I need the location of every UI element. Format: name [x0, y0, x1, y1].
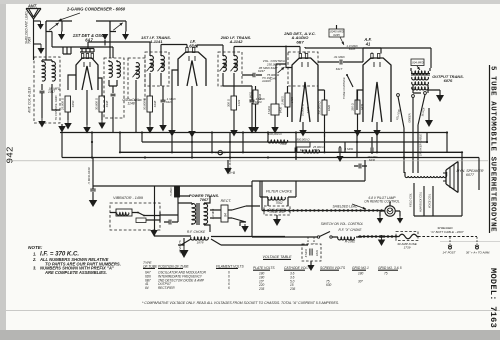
speaker cone — [443, 162, 458, 193]
svg-text:.01 MFD: .01 MFD — [333, 55, 345, 59]
speaker lead green — [408, 98, 414, 158]
label power trans 7067 — [189, 193, 219, 202]
bus verticals — [62, 124, 479, 190]
svg-text:R.F. CHOKE: R.F. CHOKE — [187, 230, 206, 234]
battery terminal wires — [450, 237, 477, 245]
label 2nd IF trans A-1142 — [220, 35, 252, 44]
scan edge bottom — [0, 330, 500, 340]
capacitor 1047b — [164, 220, 178, 225]
ground 6434 — [252, 127, 259, 133]
svg-text:VIBRATOR - 1499: VIBRATOR - 1499 — [113, 196, 143, 200]
pilot lamp symbol — [385, 202, 395, 216]
wire IF1 sec bridge to 6D6 — [161, 45, 187, 53]
1st IF transformer box — [145, 52, 169, 86]
wire 6D6 cathode down — [191, 86, 193, 131]
svg-text:25,000 Ω: 25,000 Ω — [61, 97, 65, 111]
fuse element — [397, 234, 418, 239]
6A7 grid return wiring — [52, 32, 113, 59]
label pilot lamp — [364, 196, 400, 204]
label RF X choke — [339, 228, 363, 244]
label 2nd det avc audio 6B7 — [283, 31, 316, 44]
label speaker cable — [419, 134, 423, 156]
left page number 942 — [5, 146, 16, 163]
osc coil L3 — [109, 62, 112, 78]
rect tube wires — [210, 210, 232, 218]
wire cap 6423a — [162, 86, 164, 125]
voltage table header — [253, 266, 402, 270]
wire cap 6423b — [223, 86, 252, 127]
wire 6438 down — [149, 112, 151, 125]
ground under C1b — [122, 32, 129, 41]
6B7 shield box — [288, 52, 318, 86]
resistor 50000 ohm 6438 — [143, 96, 158, 112]
wire 41 left lead — [357, 90, 363, 110]
41 top pin wires — [363, 48, 381, 62]
label to 1st audio — [261, 76, 272, 83]
big ground bottom — [178, 238, 189, 258]
wire 6436 down — [274, 115, 276, 127]
osc coil L4 — [117, 62, 120, 78]
svg-text:VOICE COIL: VOICE COIL — [428, 193, 432, 208]
rf choke 1878 label — [187, 230, 206, 234]
ground under 6423a — [159, 125, 167, 132]
fuse box — [396, 232, 418, 241]
svg-text:235: 235 — [258, 287, 265, 291]
connector C3 — [215, 150, 226, 154]
svg-text:.5 MFD: .5 MFD — [169, 187, 173, 196]
wire ant coil leads — [42, 60, 52, 92]
svg-text:100,000 Ω: 100,000 Ω — [268, 132, 282, 136]
label .05 MFD 6437 — [258, 66, 270, 73]
ground cable cap — [308, 265, 315, 271]
tube 41 V4 — [363, 54, 391, 123]
osc coil shield box — [104, 58, 124, 118]
wire 6439 — [357, 90, 359, 130]
wire 6D6 left lead — [172, 70, 178, 130]
svg-text:OF TUBE: OF TUBE — [143, 264, 158, 268]
ground 41 cathode — [373, 130, 381, 137]
svg-text:6429: 6429 — [306, 106, 310, 113]
power section top wire — [93, 158, 365, 187]
ground 6A7 cathode — [83, 125, 91, 134]
6B7 top pin wires — [300, 52, 305, 54]
svg-text:HUM BUCK COIL: HUM BUCK COIL — [419, 191, 423, 212]
svg-text:.1 MFD: .1 MFD — [344, 147, 353, 151]
ant coil secondary L2 — [52, 62, 55, 81]
wire IF1 pri bottom — [149, 86, 151, 96]
svg-text:PLATE VOLTS: PLATE VOLTS — [253, 266, 275, 270]
wire C1b down to osc coil — [109, 21, 111, 58]
ground under C1a — [58, 32, 65, 41]
svg-text:6435: 6435 — [333, 33, 340, 37]
ground left end — [150, 230, 158, 237]
svg-text:+B: +B — [231, 171, 235, 175]
bus wire y142 — [142, 141, 427, 143]
label speaker plug — [228, 158, 232, 174]
cable cap dashed leads — [308, 237, 314, 244]
vibrator coil — [116, 209, 132, 216]
arrow from 6435 — [340, 37, 344, 45]
svg-text:6338: 6338 — [105, 100, 109, 107]
svg-text:6427: 6427 — [271, 66, 278, 70]
wire osc coil leads — [109, 60, 117, 86]
wire b plus — [228, 160, 235, 175]
vibrator wires — [110, 212, 160, 222]
shielded lead dots — [262, 209, 384, 211]
capacitor 5 MFD 6436 — [267, 104, 283, 115]
1st IF secondary — [161, 56, 164, 72]
wire antenna shield tap 2 — [34, 43, 42, 45]
bus wire y157 — [62, 157, 479, 159]
svg-text:75: 75 — [384, 272, 388, 276]
svg-text:3.: 3. — [33, 266, 36, 271]
rf choke wires — [154, 236, 308, 245]
svg-text:30,000 Ω: 30,000 Ω — [95, 97, 99, 110]
filter cond wires — [268, 197, 288, 219]
2nd IF primary arrow — [220, 63, 227, 71]
svg-text:6430: 6430 — [369, 158, 376, 162]
speaker lead yellow — [395, 97, 404, 158]
svg-text:FILAMENT VOLTS: FILAMENT VOLTS — [216, 264, 244, 268]
ground pilot right — [395, 211, 403, 224]
svg-text:RECTIFIER: RECTIFIER — [158, 286, 175, 290]
label vibrator 1499 — [113, 196, 143, 200]
svg-text:* COMPARATIVE VOLTAGE ONLY.: * COMPARATIVE VOLTAGE ONLY. READ ALL VOL… — [142, 301, 339, 305]
label AF 41 — [363, 37, 371, 46]
condenser 6440 label — [87, 167, 91, 184]
svg-text:CATHODE VOLTS: CATHODE VOLTS — [284, 266, 312, 270]
speaker plug terminals — [397, 92, 427, 98]
capacitor .25 MFD 6430 — [366, 137, 377, 162]
ground under 6338 — [98, 120, 106, 129]
svg-text:GRID NO.1: GRID NO.1 — [352, 266, 369, 270]
label .004 MFD — [411, 59, 424, 66]
wire trans secondary leads — [413, 85, 428, 93]
padding condenser box — [128, 58, 145, 100]
tube table header — [143, 261, 244, 268]
gang tuning capacitor C1a — [46, 21, 62, 32]
label +6 volts — [178, 240, 182, 254]
wire 41 cathode — [376, 122, 378, 130]
label 40 MFD — [211, 209, 215, 219]
ground filter — [273, 219, 281, 226]
svg-text:630: 630 — [326, 283, 332, 287]
gang tuning capacitor C1b (osc) — [110, 21, 126, 32]
wire C1a stator down to ant coil — [45, 21, 47, 60]
power transformer core — [197, 203, 199, 225]
dual filter cond 1138 — [264, 206, 290, 215]
filter choke label — [266, 190, 293, 194]
2nd IF secondary — [234, 56, 237, 72]
wire secondary to grid — [52, 92, 60, 110]
label shielded batt cable — [431, 226, 464, 234]
wire avc into 6B7 — [286, 46, 292, 68]
wire below cap 1047 — [41, 93, 43, 118]
resistor 30000 ohm 6338 — [95, 96, 110, 112]
resistor 500k tone 6444 — [296, 138, 310, 153]
osc padder capacitor — [111, 86, 116, 111]
vibrator contacts — [132, 212, 150, 217]
resistor half meg 6434 — [249, 86, 263, 127]
bus wire y132 — [60, 132, 447, 134]
label vol control — [263, 59, 286, 70]
svg-text:SWITCH ON VOL. CONTROL: SWITCH ON VOL. CONTROL — [321, 222, 364, 226]
svg-text:6B7: 6B7 — [296, 39, 304, 44]
ground under 6423b — [248, 127, 256, 134]
label 30 amp fuse — [397, 242, 418, 249]
label 75000 ohm 1146 — [267, 73, 280, 80]
wire 41 plate to output — [305, 47, 431, 68]
svg-text:TONE CONTROL: TONE CONTROL — [342, 76, 346, 99]
resistor 300 ohm 1143 — [227, 96, 242, 110]
shielded ant lead label 7069 — [25, 11, 32, 44]
ground pilot left — [377, 211, 385, 224]
svg-text:NOTE:: NOTE: — [28, 245, 43, 250]
wire gang link top — [62, 20, 110, 22]
choke 7068 — [303, 145, 326, 153]
tube 6A7 V1 — [76, 54, 98, 91]
right vertical title 5 TUBE AUTOMOBILE SUPERHETERODYNE — [489, 66, 497, 232]
label 1st IF trans A-1141 — [141, 35, 171, 44]
ground 6439 — [354, 130, 362, 137]
svg-text:1841: 1841 — [315, 249, 319, 256]
leader to gang condenser — [59, 13, 81, 21]
wire 6437 — [242, 74, 262, 76]
svg-text:10,000 Ω: 10,000 Ω — [301, 103, 305, 116]
bus wire y152 — [120, 151, 462, 153]
capacitor .1 MFD 7066 — [354, 164, 367, 169]
svg-text:236: 236 — [289, 287, 296, 291]
svg-text:A-1142: A-1142 — [229, 39, 244, 44]
label 1st det and osc 6A7 — [73, 33, 105, 42]
svg-text:8 MFD: 8 MFD — [304, 249, 308, 257]
wire 6A7 bridge to IF1 — [88, 42, 150, 52]
capacitor .1 MFD 6423a — [161, 97, 177, 104]
capacitor mid 1 — [295, 146, 297, 160]
rectifier 84 tube — [221, 205, 228, 222]
label 7064 — [280, 142, 287, 146]
wire 1143 leads — [233, 86, 235, 130]
2nd IF secondary arrow — [231, 63, 238, 71]
label switch on vol control — [321, 222, 364, 226]
resistor 7064 choke — [268, 132, 288, 143]
svg-text:"A" BATT CABLE - 2067: "A" BATT CABLE - 2067 — [431, 230, 464, 234]
svg-text:1143: 1143 — [237, 99, 241, 106]
svg-text:7068: 7068 — [313, 148, 320, 152]
svg-text:6436: 6436 — [279, 106, 283, 113]
svg-text:1/2 MEG.: 1/2 MEG. — [249, 91, 253, 103]
svg-text:500,000 Ω: 500,000 Ω — [296, 138, 310, 142]
wire padder down — [135, 80, 137, 133]
ground mid 2 — [337, 156, 344, 162]
battery cable dots — [358, 235, 397, 238]
svg-text:FIELD COIL: FIELD COIL — [409, 192, 413, 206]
svg-text:6: 6 — [228, 286, 230, 290]
wire resistor 6450 to ground — [67, 112, 69, 120]
label 10 MFD 6445 — [346, 44, 358, 51]
scan line right mid — [440, 240, 500, 243]
svg-text:36" + A+ TO AMM.: 36" + A+ TO AMM. — [466, 251, 490, 255]
ground shield 1 — [37, 21, 44, 30]
svg-text:GREEN: GREEN — [408, 113, 412, 123]
ground 6D6 left — [168, 130, 176, 137]
resistor 2 meg 6428 — [281, 86, 295, 117]
terminal A post 1 — [442, 245, 455, 255]
ground rect — [241, 224, 249, 233]
terminal A post 2 — [466, 245, 490, 255]
label 2-gang condenser 6060 — [66, 7, 126, 12]
wire 6A7 cathode down — [86, 90, 88, 125]
label voice coil — [428, 193, 432, 208]
wire IF2 sec bridge to 6B7 — [234, 47, 300, 53]
ground 6D6 cathode — [188, 131, 196, 138]
wire 6417 — [318, 61, 363, 63]
capacitor .05 MFD 1047 — [40, 87, 61, 94]
label osc coil 1148 — [122, 98, 139, 106]
svg-text:2.: 2. — [32, 257, 36, 262]
svg-text:ANT. COIL A-1139: ANT. COIL A-1139 — [28, 87, 32, 114]
vibrator box — [110, 203, 160, 230]
svg-text:1739: 1739 — [404, 245, 411, 249]
svg-text:6437: 6437 — [258, 69, 265, 73]
ant coil primary L1 — [42, 62, 45, 81]
rectifier output V wires — [232, 206, 260, 226]
note 1 — [33, 251, 79, 258]
svg-text:5 MFD: 5 MFD — [267, 106, 271, 114]
wire 6426 — [318, 90, 325, 137]
power transformer leads — [178, 196, 210, 232]
speaker field coil — [405, 172, 447, 178]
svg-text:30*: 30* — [358, 279, 364, 283]
svg-text:MODEL: 7163: MODEL: 7163 — [488, 268, 498, 328]
svg-text:6426: 6426 — [327, 104, 331, 111]
label IF 6D6 — [189, 39, 197, 48]
svg-text:GRID NO. 3 & 5: GRID NO. 3 & 5 — [378, 266, 402, 270]
svg-text:VOLTAGE TABLE: VOLTAGE TABLE — [262, 255, 292, 259]
capacitor 6437 — [253, 73, 255, 78]
ground battery — [378, 237, 386, 247]
ground under 1143 — [230, 130, 238, 137]
resistor 10000 ohm 6429 — [301, 103, 311, 116]
label field coil — [409, 192, 413, 206]
svg-text:A-1141: A-1141 — [149, 39, 164, 44]
svg-text:RECT.: RECT. — [221, 199, 232, 203]
padding condenser arrow — [133, 69, 140, 77]
capacitor mid 2 — [339, 146, 353, 158]
junction battery — [380, 235, 383, 238]
label ant coil A-1139 — [28, 87, 32, 114]
svg-text:250,000 Ω: 250,000 Ω — [318, 101, 322, 116]
tone control switch — [342, 74, 353, 99]
ground under 6450 — [64, 120, 72, 130]
label dyn speaker 6077 — [456, 169, 483, 177]
svg-text:41: 41 — [365, 41, 371, 46]
tube 6D6 V2 — [178, 48, 206, 87]
wire 6A7 right lead — [98, 78, 102, 120]
svg-text:1878: 1878 — [197, 241, 204, 245]
svg-text:84: 84 — [145, 286, 149, 290]
padding condenser coil — [136, 63, 139, 79]
svg-text:.004 MFD: .004 MFD — [411, 61, 423, 65]
ground output trans — [428, 90, 444, 102]
6D6 top pin wires — [187, 45, 197, 48]
svg-text:SCREEN VOLTS: SCREEN VOLTS — [320, 266, 346, 270]
vibrator resistor — [136, 218, 146, 223]
ground output trans 2 — [425, 108, 433, 127]
cable dashed segment — [418, 236, 477, 238]
wire vibrator to trans — [160, 196, 190, 222]
wire 6435 area — [336, 25, 338, 29]
label output trans 6076 — [432, 74, 464, 83]
output transformer 6076 — [411, 68, 430, 90]
switch on vol control — [252, 186, 332, 238]
svg-text:R.F. "X" CHOKE: R.F. "X" CHOKE — [339, 228, 363, 232]
ground near osc top — [102, 34, 109, 46]
capacitor 6440 — [90, 186, 96, 200]
label .0045 MFD 6435 — [329, 29, 345, 37]
label shielded lead — [333, 205, 359, 209]
1st IF secondary arrow — [158, 63, 165, 71]
cable capacitor box 1841 — [302, 244, 321, 265]
wire antenna to shield ground 1 — [34, 20, 41, 22]
svg-text:84: 84 — [224, 213, 228, 217]
ant coil shield box A-1139 — [34, 57, 60, 123]
svg-text:6417: 6417 — [336, 67, 343, 71]
wire pot down — [275, 74, 277, 104]
antenna ANT — [26, 4, 41, 61]
svg-text:1.: 1. — [33, 252, 36, 257]
RF X choke coil — [332, 237, 362, 240]
note 2 — [32, 257, 121, 266]
filter choke wires — [260, 181, 296, 197]
scan edge top — [0, 0, 500, 4]
svg-text:5 TUBE AUTOMOBILE SUPERHETEROD: 5 TUBE AUTOMOBILE SUPERHETERODYNE — [489, 66, 497, 232]
ground 6440 — [89, 200, 98, 207]
svg-text:6076: 6076 — [444, 78, 453, 83]
svg-text:180: 180 — [358, 272, 364, 276]
ground 6436 — [271, 127, 279, 134]
svg-text:350 Ω: 350 Ω — [351, 102, 355, 110]
speaker lead black — [418, 95, 426, 158]
svg-text:2 MEG.: 2 MEG. — [281, 95, 285, 106]
wire 6D6 plate bridge to IF2 — [197, 45, 223, 52]
table footnote — [142, 301, 339, 305]
arrow cap to trans — [417, 66, 420, 70]
ground 6B7 cath — [299, 130, 307, 137]
ground under 6438 — [146, 125, 154, 134]
wire IF2 leads — [223, 52, 234, 86]
svg-text:ARE COMPLETE ASSEMBLIES.: ARE COMPLETE ASSEMBLIES. — [44, 270, 107, 275]
6A7 grid cap wires — [80, 49, 94, 53]
svg-text:300 Ω: 300 Ω — [227, 98, 231, 107]
speaker bottom leads — [414, 152, 462, 216]
bus junction dots — [91, 131, 463, 158]
wire speaker leads to field — [404, 158, 418, 174]
svg-text:2-GANG CONDENSER - 6060: 2-GANG CONDENSER - 6060 — [66, 7, 126, 12]
vol control pot — [276, 64, 286, 74]
svg-text:7064: 7064 — [280, 142, 287, 146]
right title rule — [489, 65, 491, 233]
power transformer primary — [192, 204, 196, 224]
svg-text:50,000 Ω: 50,000 Ω — [143, 97, 147, 110]
ground row arrows — [58, 126, 66, 133]
leader shielded lead — [352, 204, 366, 209]
svg-text:6450: 6450 — [71, 100, 75, 107]
svg-text:6434: 6434 — [258, 93, 262, 100]
1st IF primary arrow — [147, 63, 154, 71]
wire IF1 leads — [150, 52, 161, 86]
svg-text:1148: 1148 — [127, 102, 134, 106]
